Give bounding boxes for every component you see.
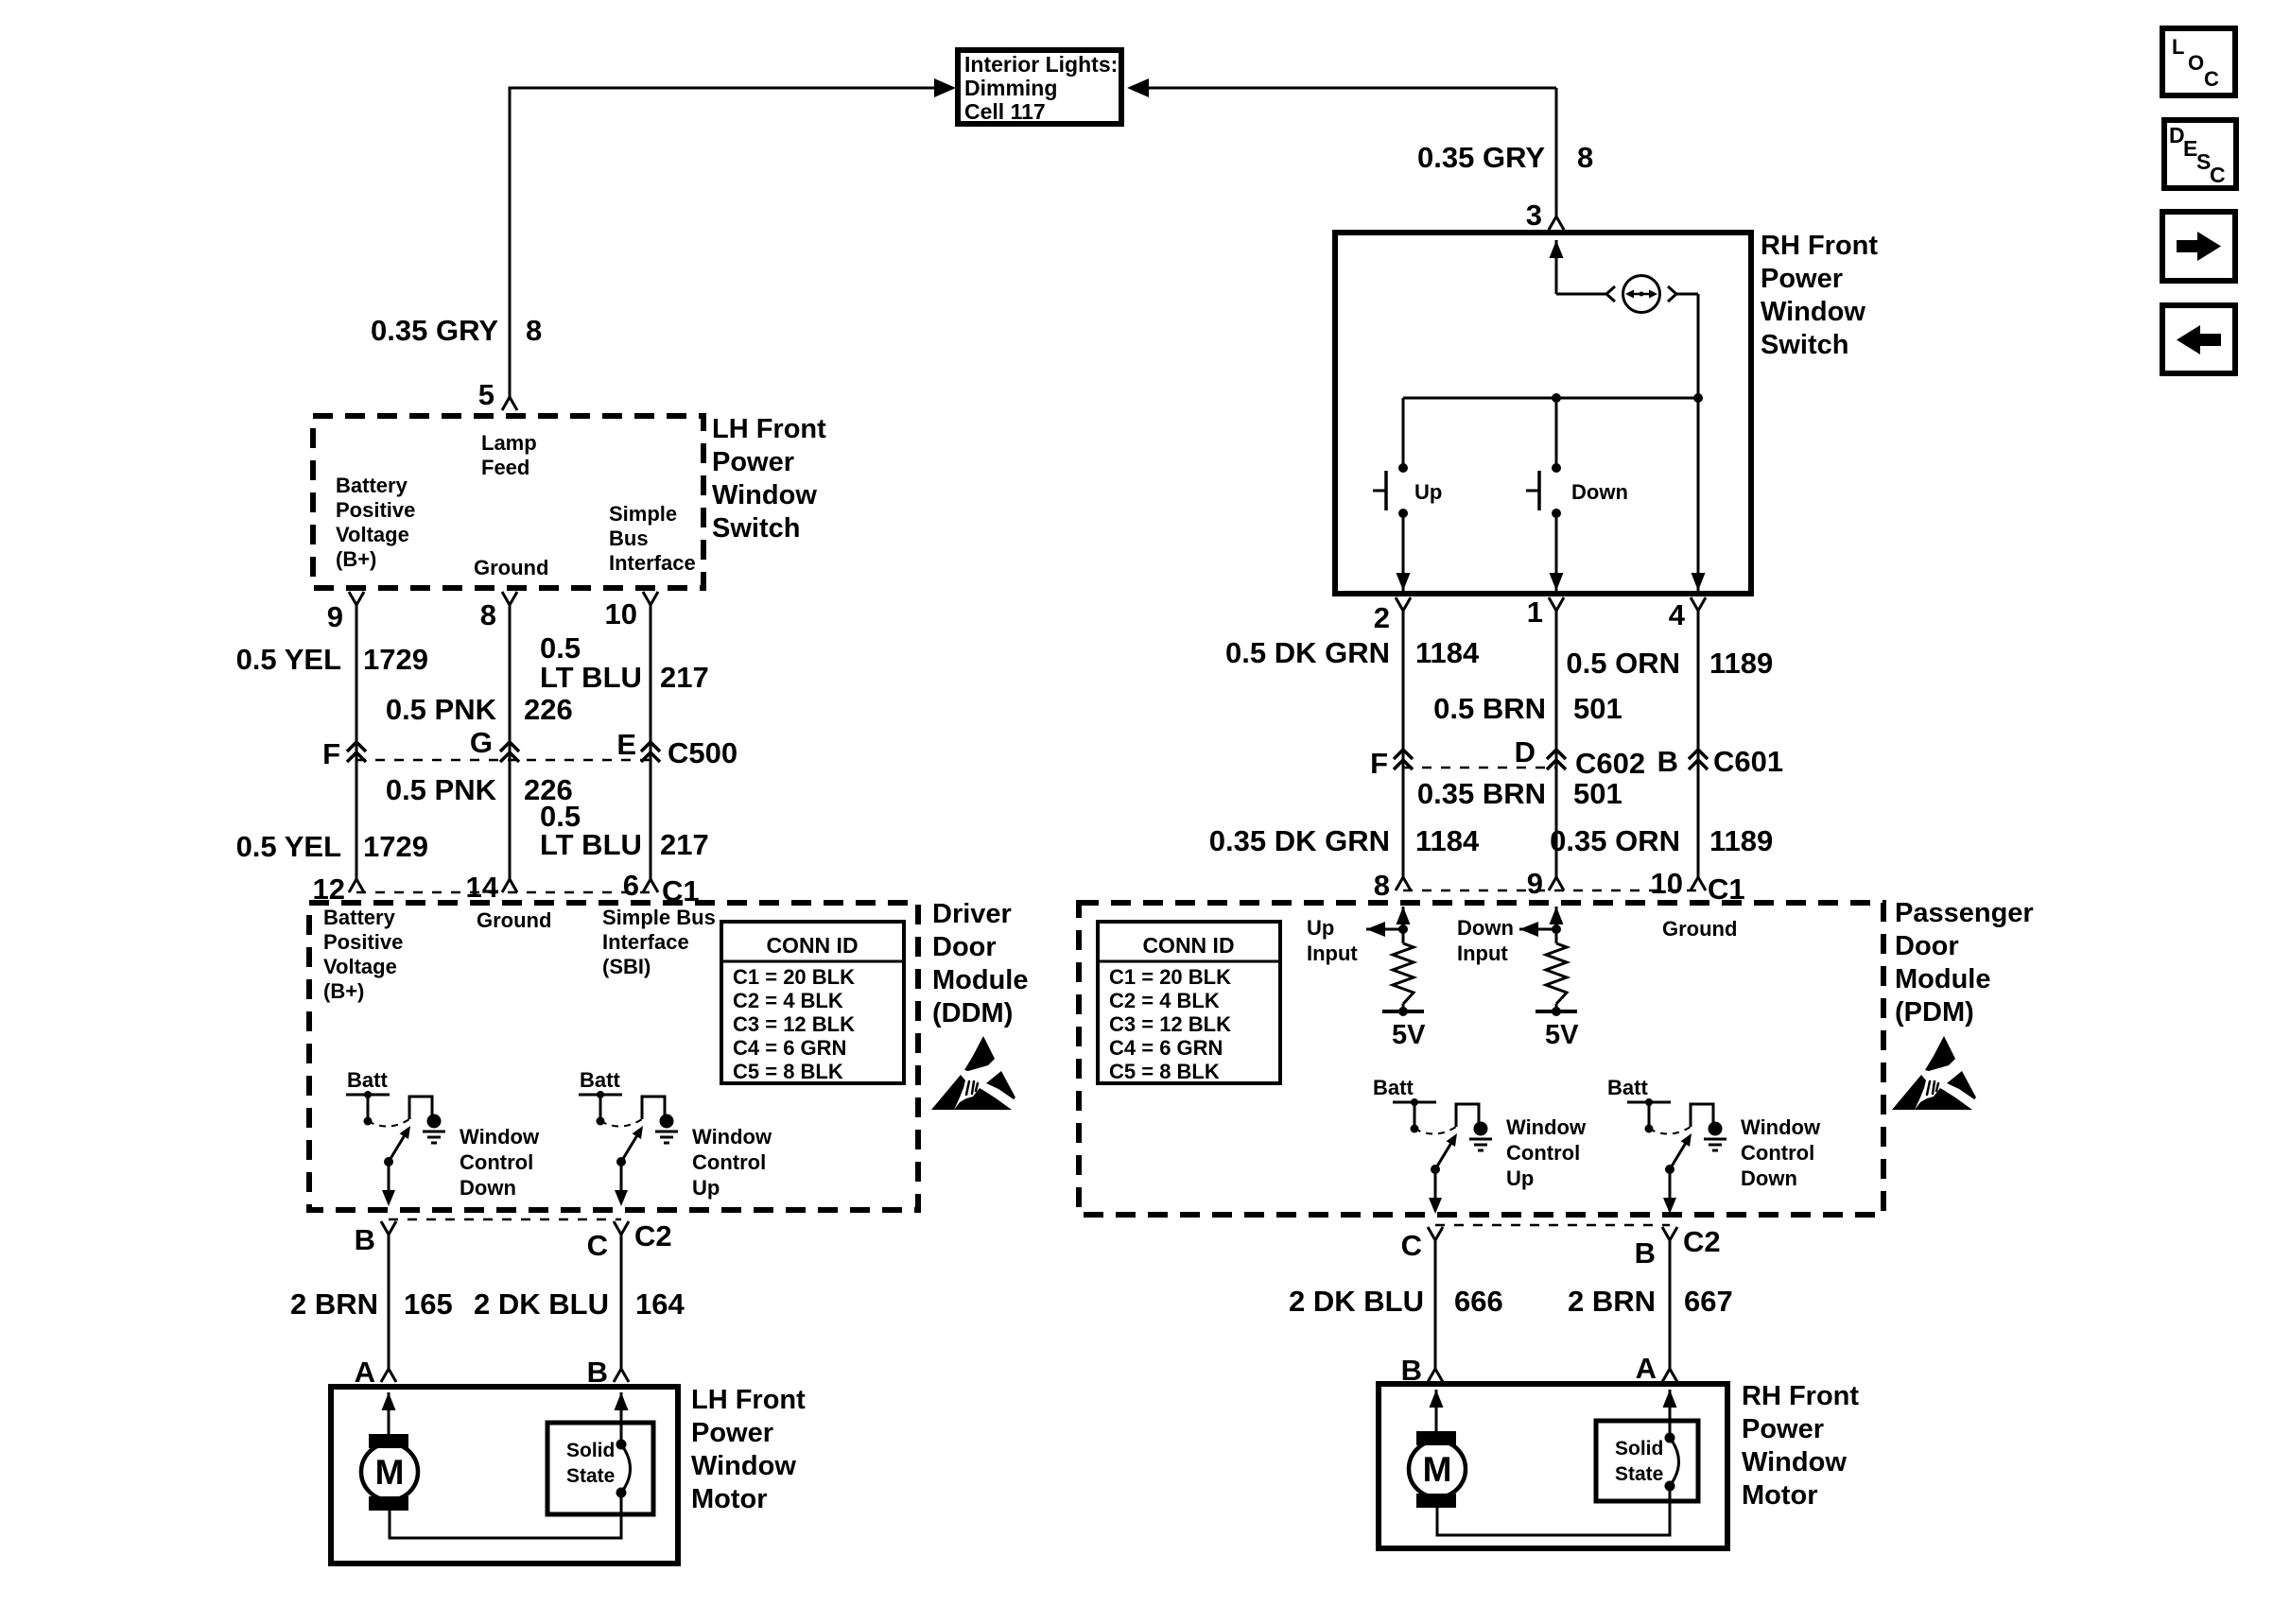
svg-text:9: 9 <box>327 600 343 633</box>
svg-text:Positive: Positive <box>323 930 403 954</box>
svg-text:Window: Window <box>1741 1115 1821 1139</box>
svg-text:(B+): (B+) <box>323 979 364 1003</box>
svg-text:C5 = 8 BLK: C5 = 8 BLK <box>1109 1060 1220 1083</box>
svg-text:Up: Up <box>692 1176 720 1200</box>
svg-text:M: M <box>1423 1450 1452 1489</box>
svg-text:Driver: Driver <box>932 899 1012 929</box>
svg-text:(DDM): (DDM) <box>932 998 1013 1028</box>
svg-text:1729: 1729 <box>363 830 428 863</box>
svg-text:Feed: Feed <box>481 456 529 479</box>
svg-text:F: F <box>1370 747 1388 780</box>
svg-text:666: 666 <box>1454 1285 1503 1318</box>
svg-text:B: B <box>355 1223 375 1256</box>
svg-text:Power: Power <box>1761 264 1843 294</box>
svg-text:LT BLU: LT BLU <box>540 828 642 861</box>
svg-text:0.5 ORN: 0.5 ORN <box>1566 647 1680 680</box>
svg-text:Input: Input <box>1457 942 1508 965</box>
svg-text:B: B <box>587 1356 608 1389</box>
svg-text:0.35 DK GRN: 0.35 DK GRN <box>1209 824 1390 857</box>
svg-text:RH Front: RH Front <box>1742 1381 1859 1411</box>
svg-text:LH Front: LH Front <box>691 1385 806 1415</box>
svg-text:M: M <box>375 1453 405 1492</box>
svg-text:Input: Input <box>1307 942 1358 965</box>
svg-text:Simple Bus: Simple Bus <box>602 906 716 929</box>
svg-text:0.5 PNK: 0.5 PNK <box>386 693 497 726</box>
svg-text:C601: C601 <box>1713 745 1783 778</box>
svg-text:C500: C500 <box>668 736 737 769</box>
svg-text:G: G <box>470 726 493 759</box>
svg-text:3: 3 <box>1526 199 1542 232</box>
svg-text:10: 10 <box>605 597 637 631</box>
svg-text:F: F <box>322 737 340 770</box>
svg-text:0.5 DK GRN: 0.5 DK GRN <box>1225 636 1390 669</box>
svg-text:C2 = 4 BLK: C2 = 4 BLK <box>1109 989 1220 1012</box>
svg-text:Passenger: Passenger <box>1895 898 2034 928</box>
svg-text:Control: Control <box>692 1150 766 1174</box>
svg-text:Window: Window <box>692 1125 772 1149</box>
svg-text:1184: 1184 <box>1415 636 1480 669</box>
svg-text:Voltage: Voltage <box>323 955 397 978</box>
svg-text:State: State <box>566 1465 615 1487</box>
svg-text:Interior Lights:: Interior Lights: <box>964 52 1118 77</box>
svg-text:1189: 1189 <box>1709 824 1773 857</box>
svg-text:C3 = 12 BLK: C3 = 12 BLK <box>1109 1012 1231 1036</box>
svg-text:Bus: Bus <box>609 527 649 550</box>
svg-text:C3 = 12 BLK: C3 = 12 BLK <box>733 1012 855 1036</box>
svg-text:(B+): (B+) <box>336 547 376 571</box>
svg-text:C4 = 6 GRN: C4 = 6 GRN <box>1109 1036 1223 1060</box>
svg-text:Window: Window <box>691 1451 796 1481</box>
svg-text:8: 8 <box>1577 141 1593 174</box>
svg-text:C2 = 4 BLK: C2 = 4 BLK <box>733 989 843 1012</box>
svg-text:Batt: Batt <box>347 1068 388 1092</box>
svg-text:2 DK BLU: 2 DK BLU <box>1289 1285 1424 1318</box>
svg-text:C2: C2 <box>1683 1225 1721 1258</box>
svg-text:Solid: Solid <box>1615 1438 1663 1460</box>
svg-text:10: 10 <box>1651 867 1683 900</box>
svg-text:Window: Window <box>1506 1115 1587 1139</box>
svg-text:0.5 YEL: 0.5 YEL <box>236 643 341 676</box>
svg-text:0.5 YEL: 0.5 YEL <box>236 830 341 863</box>
svg-text:Control: Control <box>460 1150 533 1174</box>
svg-text:Window: Window <box>1761 297 1865 327</box>
svg-text:Switch: Switch <box>1761 330 1848 360</box>
svg-text:LT BLU: LT BLU <box>540 661 642 694</box>
svg-text:Up: Up <box>1506 1166 1534 1190</box>
svg-text:8: 8 <box>1374 869 1390 902</box>
svg-text:D: D <box>1515 735 1536 769</box>
svg-text:2: 2 <box>1374 601 1390 634</box>
svg-text:Cell 117: Cell 117 <box>964 99 1046 124</box>
svg-text:5V: 5V <box>1545 1020 1579 1050</box>
svg-text:Control: Control <box>1741 1141 1814 1165</box>
svg-text:Interface: Interface <box>602 930 689 954</box>
svg-text:Motor: Motor <box>691 1484 768 1514</box>
svg-text:0.35 GRY: 0.35 GRY <box>1417 141 1545 174</box>
svg-text:667: 667 <box>1684 1285 1733 1318</box>
svg-text:501: 501 <box>1573 777 1622 810</box>
svg-text:(PDM): (PDM) <box>1895 997 1974 1028</box>
svg-text:Module: Module <box>1895 964 1991 994</box>
svg-text:A: A <box>1636 1352 1657 1385</box>
svg-text:Module: Module <box>932 965 1029 995</box>
svg-text:Ground: Ground <box>1662 917 1737 941</box>
svg-text:State: State <box>1615 1463 1663 1485</box>
svg-text:Door: Door <box>932 932 997 962</box>
svg-text:8: 8 <box>526 314 542 347</box>
svg-text:2 BRN: 2 BRN <box>1568 1285 1656 1318</box>
svg-text:4: 4 <box>1669 598 1686 631</box>
svg-text:C602: C602 <box>1575 747 1645 780</box>
svg-text:Up: Up <box>1414 480 1442 504</box>
svg-text:Window: Window <box>460 1125 540 1149</box>
svg-text:1729: 1729 <box>363 643 428 676</box>
svg-text:Battery: Battery <box>336 474 408 497</box>
svg-text:Batt: Batt <box>1373 1076 1414 1099</box>
svg-text:C5 = 8 BLK: C5 = 8 BLK <box>733 1060 843 1083</box>
svg-text:9: 9 <box>1527 867 1543 900</box>
svg-text:2 DK BLU: 2 DK BLU <box>474 1287 609 1321</box>
svg-text:Up: Up <box>1307 916 1334 940</box>
svg-text:Down: Down <box>1741 1166 1797 1190</box>
svg-text:Dimming: Dimming <box>964 76 1057 100</box>
svg-text:0.5 BRN: 0.5 BRN <box>1433 692 1546 725</box>
svg-text:L: L <box>2172 35 2184 59</box>
svg-text:Power: Power <box>1742 1414 1824 1444</box>
svg-text:C: C <box>2210 163 2226 187</box>
svg-text:Voltage: Voltage <box>336 523 409 546</box>
svg-text:Solid: Solid <box>566 1440 615 1461</box>
svg-text:165: 165 <box>404 1287 453 1321</box>
svg-text:Power: Power <box>691 1418 773 1448</box>
svg-text:1184: 1184 <box>1415 824 1480 857</box>
svg-text:0.5: 0.5 <box>540 631 581 665</box>
svg-text:C: C <box>1401 1229 1422 1262</box>
svg-text:Control: Control <box>1506 1141 1580 1165</box>
svg-text:C: C <box>587 1229 608 1262</box>
svg-text:A: A <box>355 1356 375 1389</box>
svg-text:Lamp: Lamp <box>481 431 537 455</box>
svg-text:B: B <box>1657 745 1678 778</box>
svg-text:Batt: Batt <box>580 1068 620 1092</box>
svg-text:1189: 1189 <box>1709 647 1773 680</box>
svg-text:Door: Door <box>1895 931 1959 961</box>
svg-text:LH Front: LH Front <box>712 414 826 444</box>
svg-text:Ground: Ground <box>477 908 551 932</box>
svg-text:(SBI): (SBI) <box>602 955 651 978</box>
svg-text:Ground: Ground <box>474 556 548 579</box>
svg-text:Positive: Positive <box>336 498 415 522</box>
svg-text:Down: Down <box>1571 480 1628 504</box>
svg-text:Simple: Simple <box>609 502 677 526</box>
svg-text:C: C <box>2204 67 2219 91</box>
svg-text:1: 1 <box>1527 596 1543 629</box>
svg-text:164: 164 <box>635 1287 685 1321</box>
svg-text:C2: C2 <box>634 1219 672 1253</box>
svg-text:Interface: Interface <box>609 551 696 575</box>
svg-text:Down: Down <box>460 1176 516 1200</box>
svg-text:0.35 GRY: 0.35 GRY <box>371 314 498 347</box>
svg-text:O: O <box>2188 51 2204 75</box>
svg-text:8: 8 <box>480 598 496 631</box>
svg-text:226: 226 <box>524 693 573 726</box>
svg-text:217: 217 <box>660 828 709 861</box>
svg-text:Down: Down <box>1457 916 1514 940</box>
svg-text:C1 = 20 BLK: C1 = 20 BLK <box>733 965 855 989</box>
svg-text:Switch: Switch <box>712 513 800 544</box>
svg-text:RH Front: RH Front <box>1761 231 1878 261</box>
svg-text:C1 = 20 BLK: C1 = 20 BLK <box>1109 965 1231 989</box>
svg-text:Batt: Batt <box>1607 1076 1648 1099</box>
svg-text:6: 6 <box>623 869 639 902</box>
svg-text:Power: Power <box>712 447 794 477</box>
svg-text:Window: Window <box>1742 1447 1847 1477</box>
svg-text:Motor: Motor <box>1742 1480 1818 1511</box>
svg-text:217: 217 <box>660 661 709 694</box>
svg-text:2 BRN: 2 BRN <box>290 1287 378 1321</box>
svg-text:Battery: Battery <box>323 906 396 929</box>
svg-text:Window: Window <box>712 480 817 510</box>
svg-text:E: E <box>616 728 636 761</box>
svg-text:501: 501 <box>1573 692 1622 725</box>
svg-text:5: 5 <box>478 378 495 411</box>
svg-text:0.35 BRN: 0.35 BRN <box>1417 777 1546 810</box>
svg-text:5V: 5V <box>1392 1020 1426 1050</box>
svg-text:14: 14 <box>466 871 499 904</box>
svg-text:CONN ID: CONN ID <box>1142 933 1234 958</box>
svg-text:B: B <box>1635 1236 1656 1270</box>
svg-text:CONN ID: CONN ID <box>766 933 858 958</box>
svg-text:C4 = 6 GRN: C4 = 6 GRN <box>733 1036 846 1060</box>
svg-text:0.35 ORN: 0.35 ORN <box>1550 824 1680 857</box>
svg-text:0.5 PNK: 0.5 PNK <box>386 773 497 806</box>
